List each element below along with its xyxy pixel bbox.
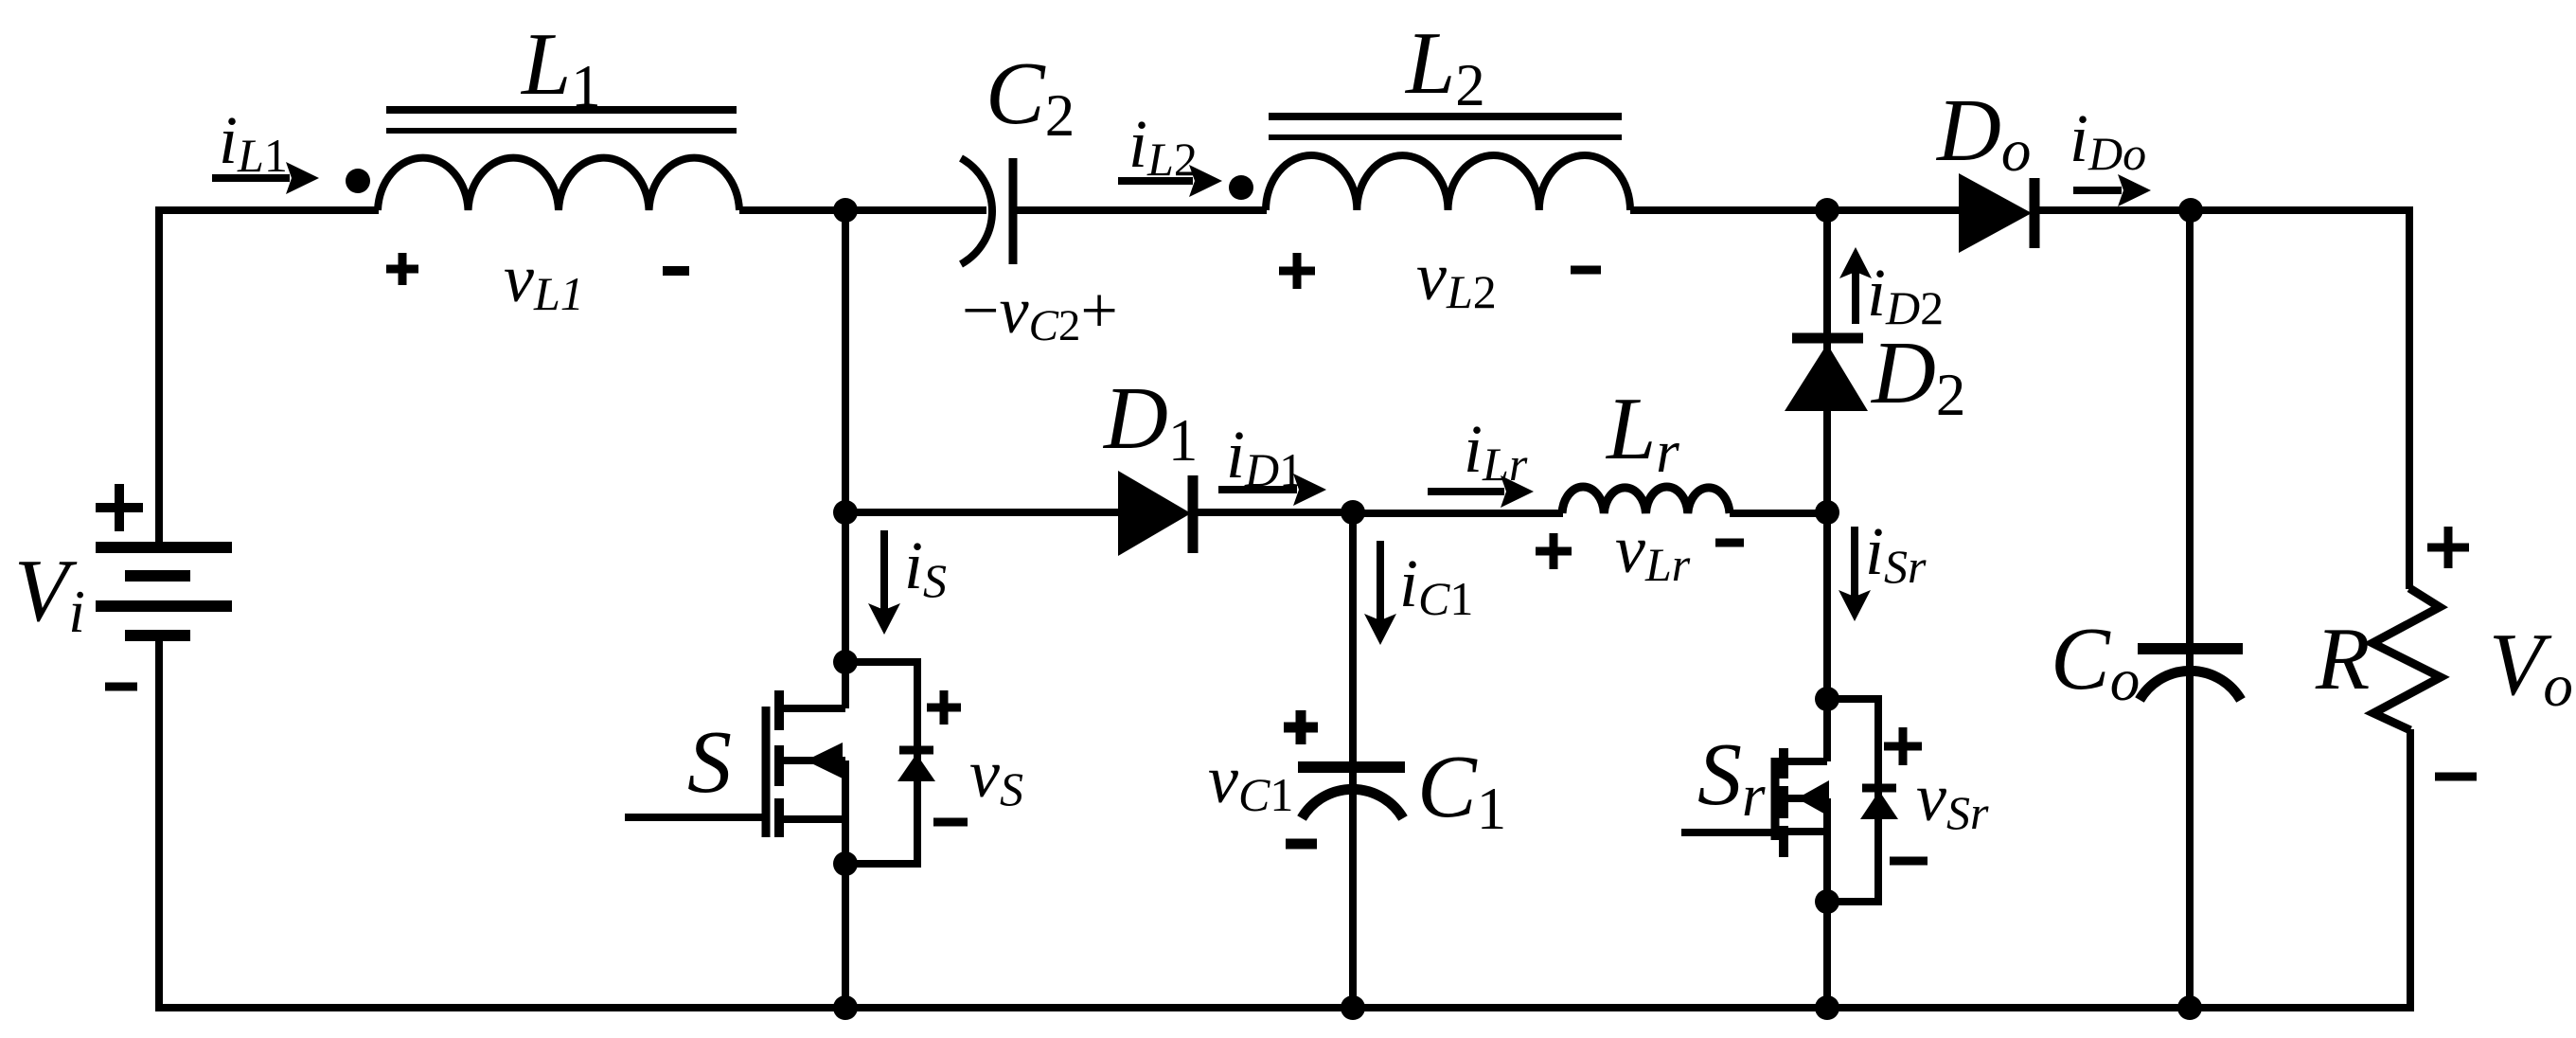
- diode D2 cathode bar: [1792, 333, 1863, 344]
- svg-text:C1: C1: [1417, 738, 1506, 842]
- transistor S gate lead: [625, 814, 766, 821]
- current arrow iS shaft: [880, 530, 888, 612]
- current arrow iL1 shaft: [212, 174, 290, 182]
- svg-text:L2: L2: [1404, 14, 1485, 118]
- transistor S gate plate: [762, 707, 771, 837]
- current arrow iD1 head: [1293, 474, 1326, 506]
- svg-text:Co: Co: [2051, 610, 2140, 713]
- current arrow iD2 shaft: [1852, 272, 1859, 324]
- inductor Lr coil: [1562, 487, 1730, 513]
- wire top rail L2 to Do: [1630, 206, 1960, 214]
- wire middle branch C1 node to Lr: [1353, 510, 1563, 517]
- current arrow iSr head: [1839, 590, 1871, 621]
- svg-text:Vi: Vi: [14, 542, 85, 645]
- svg-text:vSr: vSr: [1916, 760, 1989, 839]
- resistor R zigzag: [2372, 588, 2441, 730]
- svg-text:Sr: Sr: [1697, 725, 1766, 829]
- transistor S drain lead: [780, 705, 845, 712]
- svg-text:D2: D2: [1870, 324, 1965, 428]
- plus sign vS: [927, 690, 961, 725]
- transistor Sr gate lead: [1681, 829, 1775, 836]
- transistor Sr channel dash bottom: [1779, 826, 1788, 857]
- svg-text:R: R: [2315, 610, 2370, 708]
- node dot top at Co column: [2178, 198, 2203, 223]
- inductor L1 coil: [378, 158, 739, 210]
- node dot S drain: [833, 650, 858, 674]
- diode D1 cathode bar: [1188, 475, 1199, 553]
- wire Lr to D2 column: [1730, 510, 1828, 517]
- node dot top at S column: [833, 198, 858, 223]
- diode Do triangle: [1959, 173, 2032, 253]
- battery Vi plate short 2: [125, 630, 190, 641]
- transistor S body arrow: [806, 743, 843, 778]
- minus sign Vo: [2435, 773, 2477, 781]
- transistor S body diode triangle: [897, 754, 935, 781]
- node dot mid at D2 column: [1815, 500, 1839, 525]
- transistor Sr drain lead: [1785, 758, 1827, 765]
- node dot bottom at S column: [833, 995, 858, 1020]
- wire S column upper: [842, 210, 849, 708]
- current arrow iL1 head: [286, 162, 319, 194]
- svg-text:Vo: Vo: [2489, 616, 2573, 719]
- transistor Sr channel dash mid: [1779, 786, 1788, 818]
- battery Vi plate short 1: [125, 570, 190, 582]
- inductor L2 core bar upper: [1269, 113, 1622, 120]
- plus sign Vi: [96, 484, 143, 531]
- transistor Sr body-diode loop: [1827, 699, 1878, 902]
- current arrow iC1 shaft: [1377, 541, 1384, 622]
- transistor Sr source lead: [1785, 828, 1827, 835]
- wire top rail Do to right corner: [2032, 206, 2413, 214]
- wire top rail left segment: [155, 206, 379, 214]
- current arrow iSr shaft: [1851, 527, 1858, 599]
- current arrow iD1 shaft: [1218, 486, 1297, 493]
- plus sign vL1: [386, 253, 418, 285]
- node dot mid at C1 column: [1341, 500, 1365, 525]
- svg-text:−vC2+: −vC2+: [962, 275, 1118, 350]
- svg-text:S: S: [687, 713, 732, 812]
- current arrow iDo head: [2118, 174, 2151, 206]
- battery Vi plate long 2: [96, 600, 232, 612]
- node dot mid at S column: [833, 500, 858, 525]
- transistor S channel dash bottom: [774, 798, 784, 837]
- minus sign vL2: [1571, 266, 1601, 275]
- diode D2 triangle: [1785, 344, 1868, 411]
- inductor L1 core bar lower: [386, 128, 737, 134]
- wire C1 column: [1349, 512, 1357, 1008]
- node dot Sr drain: [1815, 687, 1839, 711]
- wire top rail C2 to L2: [1017, 206, 1267, 214]
- node dot Sr source: [1815, 889, 1839, 914]
- node dot top at D2 column: [1815, 198, 1839, 223]
- svg-text:iC1: iC1: [1399, 546, 1473, 625]
- svg-text:iL1: iL1: [219, 102, 288, 182]
- svg-text:vLr: vLr: [1615, 511, 1691, 591]
- wire left rail upper (Vi top): [155, 206, 163, 547]
- current arrow iLr head: [1501, 475, 1534, 508]
- capacitor C1 curved plate: [1302, 789, 1403, 818]
- transistor S source lead: [780, 815, 845, 823]
- svg-text:iLr: iLr: [1464, 411, 1528, 491]
- capacitor C1 top plate: [1298, 761, 1405, 773]
- svg-text:iDo: iDo: [2070, 100, 2146, 180]
- plus sign vC1: [1284, 710, 1318, 744]
- transistor Sr body arrow: [1797, 780, 1829, 816]
- svg-text:vC1: vC1: [1208, 742, 1293, 821]
- plus sign vSr: [1884, 727, 1922, 765]
- node dot bottom at Sr column: [1815, 995, 1839, 1020]
- wire middle branch D1 to C1 node: [1195, 509, 1354, 516]
- diode D1 triangle: [1118, 471, 1191, 556]
- svg-text:iS: iS: [904, 528, 947, 607]
- capacitor Co curved plate: [2140, 671, 2241, 700]
- current arrow iL2 shaft: [1118, 177, 1193, 185]
- svg-text:D1: D1: [1102, 369, 1198, 474]
- capacitor C2 straight plate: [1009, 158, 1018, 264]
- plus sign Vo: [2427, 527, 2469, 568]
- transistor Sr body diode bar: [1862, 784, 1896, 793]
- transistor S body lead: [780, 757, 845, 764]
- wire middle branch S to D1: [845, 509, 1119, 516]
- node dot bottom at Co column: [2177, 995, 2202, 1020]
- wire D2/Sr column lower: [1823, 798, 1831, 1008]
- svg-text:vL1: vL1: [504, 241, 584, 320]
- diode Do cathode bar: [2030, 178, 2040, 248]
- transistor S body-diode loop: [845, 662, 917, 864]
- current arrow iLr shaft: [1428, 488, 1504, 495]
- node dot bottom at C1 column: [1341, 995, 1365, 1020]
- wire left rail lower (Vi bottom): [155, 635, 163, 1011]
- current arrow iD2 head: [1839, 247, 1872, 278]
- plus sign vL2: [1279, 253, 1315, 289]
- minus sign vSr: [1890, 857, 1928, 866]
- svg-text:iL2: iL2: [1128, 106, 1198, 186]
- current arrow iDo shaft: [2073, 187, 2122, 194]
- wire S column lower: [842, 761, 849, 1008]
- node dot S source: [833, 851, 858, 876]
- minus sign vLr: [1715, 539, 1744, 547]
- wire bottom rail: [155, 1004, 2414, 1011]
- coupling dot L2: [1229, 175, 1253, 200]
- wire Co column: [2186, 210, 2194, 1008]
- inductor L1 core bar upper: [386, 106, 737, 114]
- svg-text:Lr: Lr: [1605, 380, 1679, 485]
- coupling dot L1: [346, 169, 370, 193]
- battery Vi plate long top: [96, 542, 232, 553]
- transistor Sr body diode triangle: [1860, 791, 1898, 819]
- svg-text:iD2: iD2: [1867, 255, 1944, 334]
- inductor L2 coil: [1266, 155, 1630, 210]
- minus sign vS: [933, 818, 968, 827]
- minus sign vL1: [663, 266, 689, 276]
- wire right rail upper (to R): [2406, 206, 2413, 589]
- transistor S channel dash mid: [774, 745, 784, 786]
- transistor S channel dash top: [774, 690, 784, 730]
- svg-text:iSr: iSr: [1865, 513, 1927, 593]
- svg-text:L1: L1: [520, 15, 601, 119]
- wire top rail L1 to C2: [739, 206, 986, 214]
- wire right rail lower (R to bottom): [2407, 729, 2414, 1011]
- minus sign Vi: [105, 683, 137, 691]
- svg-text:C2: C2: [986, 45, 1075, 149]
- transistor Sr channel dash top: [1779, 748, 1788, 778]
- inductor L2 core bar lower: [1269, 134, 1622, 140]
- capacitor C2 curved plate: [961, 158, 992, 264]
- capacitor Co top plate: [2138, 643, 2243, 654]
- plus sign vLr: [1536, 533, 1572, 569]
- transistor Sr gate plate: [1771, 758, 1780, 840]
- svg-text:Do: Do: [1935, 81, 2031, 184]
- svg-text:vS: vS: [969, 736, 1023, 815]
- svg-text:vL2: vL2: [1416, 239, 1497, 318]
- minus sign vC1: [1286, 839, 1317, 850]
- current arrow iL2 head: [1189, 165, 1222, 197]
- current arrow iS head: [868, 603, 900, 635]
- transistor S body diode bar: [899, 746, 933, 755]
- svg-text:iD1: iD1: [1226, 417, 1303, 496]
- transistor Sr body lead: [1785, 795, 1827, 802]
- current arrow iC1 head: [1364, 614, 1396, 645]
- wire D2/Sr column upper: [1823, 210, 1831, 761]
